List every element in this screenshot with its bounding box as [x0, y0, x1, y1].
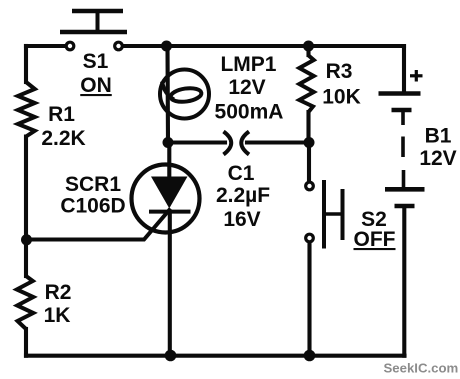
svg-text:LMP1: LMP1	[220, 53, 276, 76]
capacitor C1 plates	[224, 132, 250, 155]
svg-text:12V: 12V	[228, 76, 265, 99]
svg-text:SeekIC.com: SeekIC.com	[384, 361, 459, 376]
svg-text:1K: 1K	[44, 304, 71, 327]
battery B1	[379, 70, 425, 206]
wire R3 top lead	[306, 46, 310, 55]
wire cap left	[168, 140, 225, 144]
svg-text:SCR1: SCR1	[65, 173, 121, 196]
node cap left	[163, 137, 174, 148]
SCR Q1 symbol	[26, 165, 200, 240]
wire left vertical (top lead of R1)	[24, 46, 28, 82]
wire right vertical top to battery	[402, 46, 406, 92]
battery dash	[401, 137, 405, 158]
switch S2 pushbutton	[306, 180, 343, 249]
battery long plate top	[379, 91, 421, 96]
svg-text:ON: ON	[80, 74, 112, 97]
svg-text:B1: B1	[425, 125, 452, 148]
wire S2 bottom contact to bottom wire	[307, 243, 311, 356]
lamp LMP1	[160, 70, 209, 119]
wire right vertical battery to bottom	[402, 206, 406, 356]
svg-text:500mA: 500mA	[215, 101, 284, 124]
switch S1 pushbutton	[60, 11, 127, 50]
wire top-left horizontal	[26, 44, 65, 48]
svg-text:16V: 16V	[223, 208, 260, 231]
wire left vertical (gate node to R2)	[24, 240, 28, 277]
resistor R1	[18, 82, 35, 137]
svg-text:2.2K: 2.2K	[41, 127, 85, 150]
wire node to SCR anode	[167, 143, 171, 179]
node S2 bottom	[304, 350, 316, 362]
svg-text:R2: R2	[45, 281, 72, 304]
battery short plate 1	[392, 108, 412, 113]
SCR gate wire	[26, 209, 171, 240]
node cap right	[304, 137, 315, 148]
battery short plate bottom	[395, 204, 415, 209]
battery plus sign	[410, 74, 423, 77]
svg-text:S1: S1	[83, 50, 109, 73]
battery lower stem	[402, 170, 406, 188]
svg-text:2.2µF: 2.2µF	[216, 184, 270, 207]
wire left vertical (R1 to gate node)	[24, 137, 28, 240]
svg-text:10K: 10K	[322, 86, 361, 109]
node lamp top	[161, 41, 172, 52]
svg-text:12V: 12V	[419, 147, 456, 170]
svg-text:OFF: OFF	[354, 228, 396, 251]
resistor R2	[17, 276, 34, 329]
wire lamp branch through lamp	[165, 46, 170, 143]
svg-text:R1: R1	[48, 103, 75, 126]
resistor R3	[299, 55, 314, 112]
wire left vertical (R2 to bottom)	[24, 329, 28, 356]
svg-text:C106D: C106D	[60, 195, 125, 218]
node gate	[21, 234, 32, 245]
node cathode bottom	[165, 350, 177, 362]
svg-text:R3: R3	[326, 60, 353, 83]
node R3 top	[303, 41, 314, 52]
svg-text:C1: C1	[228, 162, 255, 185]
wire SCR cathode to bottom	[168, 212, 172, 356]
wire cap right	[247, 140, 309, 144]
wire R3 bottom lead	[306, 112, 310, 143]
wire bottom horizontal	[26, 354, 405, 358]
wire top from S1 to right corner	[124, 44, 404, 48]
battery long plate lower	[385, 187, 425, 192]
wire node to S2 top contact	[307, 143, 311, 182]
